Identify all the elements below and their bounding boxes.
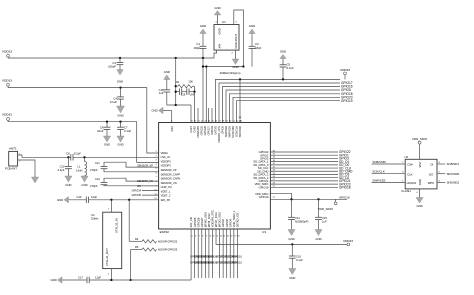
- wire VDD33 rail 1: [8, 50, 217, 58]
- capacitor C10 2.4pF: [58, 156, 72, 187]
- svg-text:GND: GND: [57, 198, 63, 202]
- svg-text:R4: R4: [135, 237, 139, 241]
- svg-text:VDET_2: VDET_2: [161, 194, 171, 198]
- svg-text:GND: GND: [65, 183, 71, 187]
- svg-text:VDD33: VDD33: [2, 113, 12, 117]
- svg-text:GPIO19: GPIO19: [259, 195, 269, 199]
- svg-text:0.1uF: 0.1uF: [124, 129, 131, 133]
- resistor R5 (32K_XN): [129, 245, 177, 281]
- svg-text:GND: GND: [416, 204, 422, 208]
- resistor R1 10K: [175, 79, 195, 91]
- capacitor C4 0.1uF: [110, 86, 125, 117]
- net label SENSOR_VP: [137, 163, 153, 167]
- capacitor C18 1uF with ground flag: [159, 70, 171, 105]
- svg-text:NO/OR GPIO33: NO/OR GPIO33: [158, 248, 178, 252]
- svg-text:GND: GND: [171, 126, 174, 132]
- svg-text:XIN: XIN: [218, 44, 222, 49]
- net label GPIO19 at line end: [339, 195, 350, 199]
- svg-text:GPIO16: GPIO16: [233, 255, 243, 258]
- svg-text:12pF: 12pF: [91, 195, 97, 199]
- svg-text:32K_XN: 32K_XN: [189, 217, 193, 227]
- svg-text:SENSOR_VN: SENSOR_VN: [137, 179, 153, 183]
- svg-text:EN: EN: [137, 184, 141, 188]
- crystal frequency note: [220, 71, 241, 75]
- svg-text:XTAL32_IN: XTAL32_IN: [114, 218, 118, 233]
- svg-text:GPIO26: GPIO26: [196, 217, 200, 227]
- svg-text:GPIO19: GPIO19: [341, 99, 353, 103]
- svg-text:SCK/CLK: SCK/CLK: [372, 170, 384, 174]
- chip left pin labels: [161, 151, 181, 202]
- port VDD33 (rail1): [2, 50, 12, 59]
- svg-text:MTDI_IO12: MTDI_IO12: [207, 213, 211, 227]
- svg-text:SWP/SD3: SWP/SD3: [228, 125, 232, 137]
- capacitor C2 100pF (rail1 to GND): [108, 57, 123, 84]
- U2 internal labels: [407, 162, 435, 186]
- svg-text:18pF: 18pF: [255, 46, 262, 50]
- svg-text:SENSOR_VN: SENSOR_VN: [161, 181, 177, 185]
- wire top pin7 stub: [211, 108, 213, 123]
- svg-text:WP#: WP#: [428, 181, 435, 185]
- svg-text:LNA_IN: LNA_IN: [161, 155, 170, 159]
- svg-text:MTCK_IO13: MTCK_IO13: [214, 212, 218, 227]
- chip bottom pin labels (rotated): [189, 210, 239, 227]
- capacitor C11 270pF: [90, 161, 159, 172]
- svg-text:SWP/SD3: SWP/SD3: [372, 178, 385, 182]
- svg-text:U0TXD_IO1: U0TXD_IO1: [235, 212, 239, 227]
- svg-text:GND: GND: [81, 183, 87, 187]
- svg-text:C12: C12: [95, 177, 100, 181]
- svg-text:SENSOR_VP: SENSOR_VP: [161, 168, 177, 172]
- svg-text:100pF: 100pF: [108, 65, 116, 69]
- net labels bottom group 1: [190, 255, 217, 264]
- svg-text:NO/OR GPIO32: NO/OR GPIO32: [158, 239, 178, 243]
- svg-text:GND: GND: [249, 24, 255, 28]
- wires U2 left with net labels: [372, 160, 406, 164]
- svg-text:0.1uF: 0.1uF: [110, 100, 117, 104]
- svg-text:VDD33: VDD33: [343, 239, 353, 243]
- svg-text:VDDA3P3: VDDA3P3: [196, 125, 200, 137]
- capacitor C12 270pF: [90, 177, 159, 188]
- net labels right GPIO wires: [339, 150, 353, 189]
- wire top pin15 with input arrow: [239, 78, 242, 122]
- wire staircase GPIO bundle to right labels: [216, 79, 341, 122]
- crystal U4 box: [91, 212, 122, 268]
- svg-text:10uF: 10uF: [97, 129, 104, 133]
- wire 32K_XP net: [57, 197, 159, 203]
- wire top pin6 stub: [208, 108, 210, 123]
- svg-text:GPIO19: GPIO19: [259, 185, 269, 189]
- svg-text:VCC: VCC: [418, 162, 422, 168]
- U2 ground: [416, 189, 423, 208]
- svg-text:GPIO5: GPIO5: [221, 125, 225, 133]
- svg-text:12pF: 12pF: [95, 275, 101, 279]
- svg-text:U4: U4: [91, 213, 95, 217]
- chip left pin numbers: [154, 151, 157, 200]
- capacitor C1 18pF: [194, 24, 207, 59]
- ground under U1 pin 2: [232, 50, 238, 69]
- svg-text:GPIO25: GPIO25: [193, 217, 197, 227]
- svg-text:0.1uF: 0.1uF: [296, 258, 303, 262]
- chip top pin labels (rotated): [189, 125, 242, 143]
- net label SENSOR_VN: [137, 179, 153, 183]
- svg-text:C15: C15: [322, 216, 327, 220]
- svg-text:U3: U3: [262, 230, 266, 234]
- svg-text:VDD3P3_CPU: VDD3P3_CPU: [217, 126, 221, 143]
- svg-text:U1: U1: [222, 20, 226, 24]
- wire antenna ground leg: [18, 160, 39, 183]
- svg-text:GPIO19: GPIO19: [339, 195, 350, 199]
- svg-text:VDD3P3_RTC: VDD3P3_RTC: [211, 210, 215, 227]
- svg-text:VDD33: VDD33: [2, 79, 12, 83]
- wire VDD_SDIO pin L: [270, 193, 291, 199]
- svg-text:GND: GND: [214, 6, 220, 10]
- svg-text:GPIO2: GPIO2: [221, 219, 225, 228]
- svg-text:L1: L1: [78, 165, 81, 169]
- svg-text:270pF: 270pF: [90, 184, 98, 188]
- chip U3 ESP32 body: [159, 123, 271, 235]
- svg-text:GND: GND: [50, 278, 56, 282]
- svg-text:GND: GND: [151, 109, 157, 113]
- svg-text:C13: C13: [77, 195, 82, 199]
- svg-text:GPIO4: GPIO4: [228, 219, 232, 228]
- svg-text:C11: C11: [95, 161, 100, 165]
- svg-text:SHD/SD2: SHD/SD2: [447, 181, 460, 185]
- capacitor C6 10uF: [97, 121, 110, 147]
- svg-text:1.6nH: 1.6nH: [75, 169, 82, 173]
- svg-text:SCK/CLK: SCK/CLK: [235, 126, 239, 137]
- capacitor C15 1uF: [315, 199, 328, 241]
- svg-text:GND: GND: [418, 179, 422, 185]
- svg-text:GND: GND: [117, 80, 123, 84]
- U1 pin labels: [218, 28, 239, 48]
- wire 32K_XN net: [50, 229, 191, 283]
- svg-text:GND: GND: [232, 65, 238, 69]
- U1 pin numbers: [216, 22, 238, 55]
- svg-text:XTAL32_OUT: XTAL32_OUT: [105, 248, 109, 266]
- svg-text:GND: GND: [117, 143, 123, 147]
- svg-text:GPIO25: GPIO25: [200, 125, 204, 135]
- U4 pin 1: [108, 200, 112, 212]
- svg-text:VDD33: VDD33: [2, 50, 12, 54]
- port VDD33 (rail3): [2, 113, 12, 122]
- wire VDD33 bottom line: [216, 229, 347, 246]
- chip right pin numbers: [273, 150, 276, 187]
- wire XOUT loop (U1 pin3 around to chip CAP2): [202, 10, 245, 123]
- svg-text:VDD3P3: VDD3P3: [161, 159, 172, 163]
- wire VDD_SDIO net line: [270, 197, 347, 200]
- wire RF line: [30, 156, 159, 158]
- svg-text:C8: C8: [66, 152, 70, 156]
- wire top pin3 stub: [197, 108, 199, 123]
- chip bottom pin numbers: [192, 236, 241, 238]
- wire antenna feed: [18, 155, 30, 157]
- svg-text:R5: R5: [135, 245, 139, 249]
- port VDD_SDIO (mid): [318, 199, 337, 211]
- capacitor C9 row (two series caps): [175, 89, 196, 97]
- svg-text:VDD_SDIO: VDD_SDIO: [318, 207, 334, 211]
- svg-text:CS#: CS#: [407, 163, 413, 167]
- svg-text:SCB/CMD: SCB/CMD: [372, 160, 385, 164]
- svg-text:GND: GND: [104, 143, 110, 147]
- capacitor C13 12pF labels: [77, 195, 98, 199]
- wire net at y=105 (VDDA row): [167, 104, 191, 123]
- svg-text:GPIO35: GPIO35: [132, 193, 142, 197]
- wire VDD33 rail 2: [8, 88, 159, 153]
- svg-text:MTDO_IO15: MTDO_IO15: [218, 212, 222, 228]
- port VDD33 (bottom right): [343, 239, 353, 246]
- svg-text:DI: DI: [430, 163, 433, 167]
- ground arrow at chip top-left: [151, 107, 171, 122]
- svg-text:GND XOUT: GND XOUT: [234, 33, 238, 48]
- svg-text:32K_XP: 32K_XP: [161, 198, 171, 202]
- svg-text:SENSOR_CAPP: SENSOR_CAPP: [161, 172, 181, 176]
- svg-text:U0TXD: U0TXD: [214, 126, 218, 135]
- port VDD_SDIO (above U2): [412, 137, 428, 160]
- wire top pin14 long line: [237, 101, 341, 123]
- svg-text:32kHz: 32kHz: [91, 217, 99, 221]
- wires chip right GPIO outputs: [270, 151, 338, 153]
- svg-text:2.4pF: 2.4pF: [58, 168, 65, 172]
- svg-text:VDD_SDIO_1: VDD_SDIO_1: [232, 210, 236, 227]
- svg-text:GPIO34: GPIO34: [132, 188, 142, 192]
- svg-text:GND: GND: [280, 50, 286, 54]
- svg-text:VDD3P3: VDD3P3: [161, 164, 172, 168]
- U4 pin 2: [108, 269, 112, 280]
- svg-text:CHIP_PU: CHIP_PU: [161, 185, 172, 189]
- ground flag above U1 pin 4: [214, 6, 220, 25]
- svg-text:VDET_1: VDET_1: [161, 189, 171, 193]
- wire CAP1 net (C1/rail junction down to chip): [202, 58, 204, 123]
- svg-text:VDD_SDIO: VDD_SDIO: [412, 137, 428, 141]
- capacitor C8 8.2pF (series): [66, 152, 81, 161]
- svg-text:U0RXD: U0RXD: [210, 126, 214, 135]
- svg-text:GPIO27: GPIO27: [207, 125, 211, 135]
- U4 pin labels: [105, 218, 119, 266]
- net labels GPIO bundle right: [341, 81, 353, 85]
- svg-text:ANT1: ANT1: [9, 146, 17, 150]
- capacitor C16 0.1uF: [289, 244, 304, 279]
- svg-text:SENSOR_VP: SENSOR_VP: [137, 163, 153, 167]
- svg-text:SHD/SD2: SHD/SD2: [224, 125, 228, 137]
- svg-text:C19: C19: [181, 94, 186, 97]
- svg-text:MTMS_IO14: MTMS_IO14: [203, 212, 207, 228]
- port VDD33 (top right): [340, 68, 350, 79]
- svg-text:0.1uF: 0.1uF: [287, 66, 294, 70]
- svg-text:NO(800pF): NO(800pF): [295, 219, 309, 223]
- capacitor C3 18pF: [249, 24, 262, 67]
- svg-text:GND: GND: [218, 28, 222, 34]
- oscillator U1 box: [214, 20, 239, 50]
- chip right pin labels: [253, 150, 268, 189]
- svg-text:GPIO27: GPIO27: [200, 217, 204, 227]
- svg-text:40MHz(±10ppm): 40MHz(±10ppm): [220, 71, 241, 75]
- svg-text:GPIO26: GPIO26: [203, 125, 207, 135]
- svg-text:R1: R1: [176, 80, 180, 84]
- svg-text:GPIO16: GPIO16: [233, 262, 243, 265]
- svg-text:U2: U2: [405, 155, 409, 159]
- svg-text:VDD_SDIO: VDD_SDIO: [255, 192, 268, 196]
- svg-text:GND: GND: [289, 276, 295, 280]
- svg-text:VDDA: VDDA: [161, 151, 168, 155]
- svg-text:SCB/SD1: SCB/SD1: [447, 162, 460, 166]
- chip pin GND top-left label: [171, 120, 174, 131]
- svg-text:1uF: 1uF: [159, 91, 164, 95]
- wire VDDA column (rail1 tap down): [175, 57, 177, 105]
- svg-text:GND: GND: [315, 237, 321, 241]
- svg-text:8.2pF: 8.2pF: [74, 152, 81, 156]
- svg-text:SENSOR_CAPN: SENSOR_CAPN: [161, 177, 181, 181]
- svg-text:SDO/SD0: SDO/SD0: [447, 172, 460, 176]
- capacitor C17 12pF labels: [78, 275, 101, 279]
- svg-text:GND: GND: [117, 113, 123, 117]
- net labels VDET wires: [132, 188, 159, 192]
- svg-text:C16: C16: [296, 255, 301, 259]
- svg-text:C17: C17: [78, 275, 83, 279]
- svg-text:GND: GND: [288, 237, 294, 241]
- svg-text:ESP32: ESP32: [160, 230, 170, 234]
- chip top pin numbers: [190, 120, 242, 122]
- svg-text:SDO/SD0: SDO/SD0: [238, 125, 242, 137]
- capacitor C7 0.1uF: [117, 121, 132, 147]
- svg-text:18pF: 18pF: [194, 46, 201, 50]
- svg-text:PCB ANT: PCB ANT: [5, 167, 17, 171]
- flash U2 box: [402, 155, 438, 193]
- svg-text:270pF: 270pF: [90, 168, 98, 172]
- wire CHIP_PU with net label: [137, 184, 158, 188]
- resistor R4 (32K_XP): [129, 200, 178, 244]
- wire sensor pin2 vertical: [194, 92, 196, 123]
- svg-text:CAP1: CAP1: [189, 125, 193, 132]
- svg-text:C14: C14: [295, 216, 300, 220]
- wires U2 right with net labels: [437, 162, 459, 166]
- capacitor C5 0.1uF on VDD33 line: [280, 50, 294, 81]
- capacitor C14 NO(800pF): [288, 199, 309, 241]
- svg-text:CAP2: CAP2: [193, 125, 197, 132]
- svg-text:FLASH: FLASH: [402, 189, 411, 193]
- wires chip bottom GPIO group 1: [194, 229, 196, 278]
- inductor L1 1.6nH: [75, 156, 88, 187]
- net labels bottom group 2: [216, 255, 242, 264]
- svg-text:GPIO0: GPIO0: [225, 219, 229, 228]
- wires chip bottom GPIO group 2: [219, 229, 221, 278]
- svg-text:VDD33: VDD33: [340, 68, 350, 72]
- svg-text:GND: GND: [164, 70, 170, 74]
- svg-text:SCS/CMD: SCS/CMD: [231, 126, 235, 138]
- svg-text:10K: 10K: [188, 79, 193, 83]
- svg-text:CLK: CLK: [407, 172, 413, 176]
- port VDD33 (rail2): [2, 79, 12, 88]
- svg-text:1uF: 1uF: [322, 219, 327, 223]
- antenna ANT1: [5, 146, 21, 170]
- svg-text:HOLD#: HOLD#: [407, 181, 417, 185]
- wire VDD33 rail 3: [8, 122, 159, 163]
- svg-text:GPIO18: GPIO18: [339, 186, 351, 190]
- svg-text:GND: GND: [200, 24, 206, 28]
